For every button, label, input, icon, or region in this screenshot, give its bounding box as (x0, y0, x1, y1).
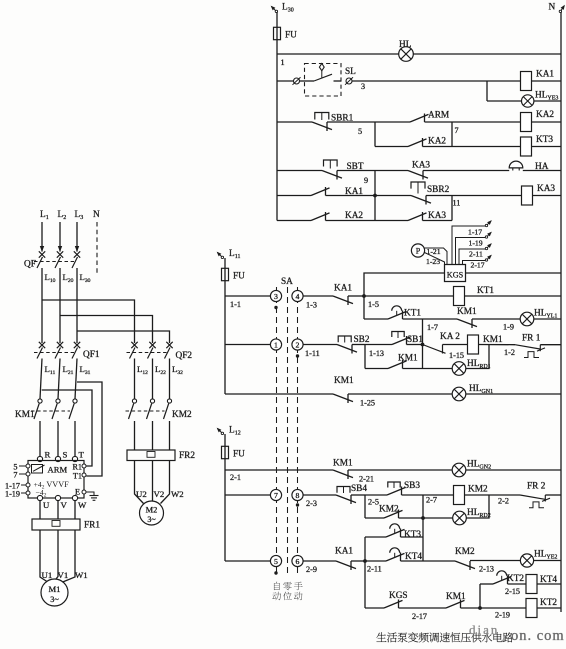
wire 2-7 to coil KM2 (423, 494, 454, 496)
pushbutton SB3 (388, 482, 400, 488)
contact KA2 (bottom) (311, 213, 330, 221)
svg-text:2-1: 2-1 (230, 473, 241, 482)
wire L12 to KM2 (134, 359, 136, 400)
svg-text:6: 6 (296, 557, 300, 566)
wire tap T1 from L31 (77, 382, 102, 476)
wire KM2 self-hold row (365, 517, 384, 519)
svg-text:1-19: 1-19 (5, 490, 20, 499)
wire to contact KA3 bottom (375, 220, 408, 222)
svg-text:KA3: KA3 (412, 161, 430, 171)
wire SBR1 to node 5 (327, 121, 375, 123)
svg-text:1-25: 1-25 (360, 399, 375, 408)
wire N rail (560, 12, 562, 612)
wire rung 5-6 left (225, 560, 271, 562)
wire rung1 to coil KT1 (364, 295, 454, 297)
wire junction column SBT rows (374, 171, 376, 221)
pushbutton SBT (NC) (324, 160, 338, 167)
svg-text:L12: L12 (229, 426, 241, 437)
svg-text:2: 2 (296, 340, 300, 349)
wire L30 bus (76, 268, 78, 343)
svg-text:2-19: 2-19 (495, 611, 510, 620)
fuse FU (middle) (224, 258, 226, 394)
svg-text:KA1: KA1 (334, 284, 352, 294)
svg-text:L22: L22 (155, 364, 166, 376)
wire L31 to KM1 (75, 359, 77, 400)
svg-text:1-15: 1-15 (449, 351, 464, 360)
wire self-hold row (365, 368, 388, 370)
wire rung SL right to coil KA1 (352, 80, 521, 82)
wire tap L20 to QF2 pole2 (60, 316, 153, 344)
contact KA1 (auto start) (333, 296, 353, 304)
KGS terminal wire 1-17 (452, 226, 486, 265)
SA mode label auto-zero-hand (274, 582, 280, 590)
wire KA3 to bell HA (423, 170, 509, 172)
svg-text:W2: W2 (171, 489, 184, 499)
bell HA (509, 161, 523, 168)
liquid level controller KGS (445, 265, 466, 282)
contactor coil KM1 (468, 335, 479, 354)
wire junction up to KGS (364, 273, 445, 296)
contact KA2 (self-hold) (408, 139, 427, 147)
svg-text:KM2: KM2 (379, 505, 399, 515)
wire P to KGS (1-23) (425, 253, 445, 265)
svg-text:KM1: KM1 (457, 307, 477, 317)
svg-text:U: U (43, 500, 50, 510)
svg-text:KM1: KM1 (398, 354, 418, 364)
wire 2-3 to SB4 (303, 494, 336, 496)
svg-text:L11: L11 (45, 364, 56, 376)
terminal S (55, 456, 60, 461)
wire L21 to KM1 (58, 359, 60, 400)
wire junction to lamp HL-RD2 (423, 517, 453, 519)
wire rung 3 (225, 393, 333, 395)
wire KGS row (365, 607, 384, 609)
contact KM2 (pump2 running) (455, 561, 475, 569)
time relay coil KT2 (526, 599, 537, 618)
wire HL-YL1 to right rail (534, 318, 561, 320)
contact KM1 (NC stop indicator) (333, 394, 353, 402)
wire KM1 to ARM box (39, 421, 41, 457)
svg-text:SBR2: SBR2 (427, 185, 450, 195)
wire FR1 to right rail (540, 344, 561, 346)
svg-text:7: 7 (455, 126, 459, 135)
wire U V W to FR1 (39, 500, 41, 519)
wire HL-YE3 to N (534, 100, 561, 102)
terminal stud right of SL (346, 78, 352, 84)
svg-text:T1: T1 (73, 472, 82, 481)
svg-text:W: W (78, 500, 87, 510)
svg-text:P: P (416, 247, 421, 256)
svg-text:T: T (79, 450, 85, 460)
wire branch to lamp HL-YE3 (486, 81, 488, 101)
svg-text:U2: U2 (136, 489, 147, 499)
svg-text:2-13: 2-13 (479, 565, 494, 574)
wire KA2 to coil KM1 (443, 344, 468, 346)
terminal W (72, 495, 77, 500)
svg-text:FR1: FR1 (84, 521, 100, 531)
net L11 terminal (218, 253, 223, 258)
wire rung SBR1 (277, 121, 312, 123)
contactor coil KM2 (454, 486, 465, 505)
inverter unit ARM / VVVF box (28, 461, 84, 499)
svg-text:7: 7 (274, 491, 278, 500)
wire KT3 coil to N (532, 146, 562, 148)
svg-text:KM2: KM2 (172, 410, 192, 420)
svg-text:L1: L1 (40, 210, 49, 221)
wire L11 to KM1 (40, 359, 42, 400)
wire SBR2 to coil KA3 (426, 195, 522, 197)
wire KM1 coil to FR1 contact (479, 344, 516, 346)
thermal overload relay FR1 (32, 519, 80, 530)
net L12 terminal (218, 429, 223, 434)
thermal overload relay FR2 (127, 450, 175, 461)
wire KT4 to junction column (401, 560, 424, 562)
svg-text:KM1: KM1 (483, 335, 503, 345)
svg-text:KGS: KGS (447, 271, 464, 280)
svg-text:KT1: KT1 (477, 286, 494, 296)
svg-text:KA3: KA3 (428, 211, 446, 221)
svg-text:L2: L2 (58, 210, 67, 221)
svg-text:11: 11 (453, 199, 461, 208)
pushbutton SB2 (stop) (338, 336, 351, 342)
thermal contact FR1 (515, 345, 540, 349)
wire 2-17 to KM1 contact (399, 607, 447, 609)
KGS terminal wire 2-17 (463, 261, 487, 265)
relay coil KA1 (521, 72, 532, 91)
wire KM2 coil to FR2 contact (465, 494, 521, 496)
wire L20 bus (59, 268, 61, 343)
wire junction column up to KT2 contact row (479, 584, 481, 608)
wire 1-3 to KA1 (303, 295, 333, 297)
wire KM2 to FR2 (134, 421, 136, 450)
svg-text:R: R (45, 450, 51, 460)
wire FR2 to right rail (545, 494, 561, 496)
svg-text:3: 3 (361, 82, 365, 91)
wire HL-GN2 to right rail (466, 469, 561, 471)
wire 2-21 to lamp HL-GN2 (348, 469, 452, 471)
lamp HL-YE2 (520, 554, 533, 567)
wire rung SL left (277, 80, 293, 82)
lamp HL-RD1 (452, 362, 466, 376)
wire SB3 to junction column (402, 494, 424, 496)
svg-text:5: 5 (274, 557, 278, 566)
svg-text:2-17: 2-17 (412, 612, 427, 621)
wire branch down (self hold) (364, 345, 366, 369)
wire KA2 coil to N (532, 121, 562, 123)
ARM internal switch (32, 465, 43, 474)
wire 1-13 to SB1 (365, 344, 392, 346)
wire KM1 selfhold to junction column (403, 368, 423, 370)
contact KM1 (interlock bottom) (446, 600, 465, 608)
thermal contact FR2 (520, 495, 545, 499)
wire KT3 row (365, 536, 386, 538)
wire KT1 coil to right rail (465, 295, 562, 297)
KGS terminal wire 2-11 (459, 249, 486, 265)
wire 1-11 to SB2 (303, 344, 337, 346)
svg-text:KM1: KM1 (334, 376, 354, 386)
pushbutton SBR1 (NC) (315, 113, 329, 120)
svg-text:KGS: KGS (389, 591, 408, 601)
pushbutton SB1 (start) (392, 332, 404, 338)
junction column right of ARM (451, 122, 453, 147)
svg-text:9: 9 (364, 176, 368, 185)
svg-text:on. com: on. com (511, 628, 565, 644)
svg-text:3: 3 (274, 292, 278, 301)
terminal stud left of SL (294, 78, 300, 84)
svg-text:2-9: 2-9 (306, 565, 317, 574)
delayed contact KT4 on rung (365, 560, 386, 562)
caption title (376, 632, 386, 641)
svg-text:L3: L3 (75, 210, 84, 221)
contact KA2 (pressure interlock) (423, 345, 446, 354)
net L30 terminal (272, 7, 277, 12)
limit switch SL with dashed enclosure (305, 64, 342, 97)
wire 1-25 to lamp HL-GN1 (348, 393, 452, 395)
wire tap L30 to QF2 pole3 (77, 331, 170, 343)
svg-text:1-9: 1-9 (503, 323, 514, 332)
contact ARM (410, 114, 429, 122)
svg-text:1-1: 1-1 (230, 300, 241, 309)
svg-text:1-11: 1-11 (305, 349, 320, 358)
SA contact 2 (292, 339, 303, 350)
wire rung 1 left (225, 295, 271, 297)
svg-text:R1: R1 (72, 463, 82, 472)
svg-text:M2: M2 (146, 506, 158, 515)
svg-text:2-3: 2-3 (306, 499, 317, 508)
svg-text:FU: FU (233, 450, 245, 460)
wire rung KA1 contact (277, 195, 311, 197)
svg-text:N: N (549, 3, 556, 13)
circuit breaker QF1 (39, 342, 45, 348)
svg-text:KA 2: KA 2 (440, 332, 460, 342)
svg-text:1-17: 1-17 (468, 228, 482, 237)
wire KA1 contact to junction (326, 195, 376, 197)
wire KT2 contact to coil KT4 (508, 583, 527, 585)
svg-text:dian: dian (469, 622, 499, 637)
svg-text:1: 1 (274, 340, 278, 349)
wire KGS to right rail (466, 272, 562, 274)
contact KA1 (level relay) (336, 561, 356, 569)
svg-text:L12: L12 (137, 364, 148, 376)
wire rung 2 left (225, 344, 271, 346)
relay coil KA2 (521, 113, 532, 132)
svg-text:1-13: 1-13 (369, 349, 384, 358)
wire KA1 to junction 1-5 (348, 295, 364, 297)
lamp HL-YL1 (520, 312, 534, 326)
svg-text:KA1: KA1 (335, 547, 353, 557)
terminal R (37, 456, 42, 461)
svg-text:SB4: SB4 (351, 484, 367, 494)
svg-text:FU: FU (233, 272, 245, 282)
svg-text:2-2: 2-2 (498, 497, 509, 506)
svg-text:SL: SL (345, 67, 356, 77)
svg-text:L32: L32 (172, 364, 183, 376)
wire HL-RD1 up to rung2 (466, 345, 489, 369)
svg-text:3~: 3~ (147, 515, 156, 524)
pushbutton SB4 (337, 487, 350, 493)
SA contact 8 (292, 489, 303, 500)
wire branch KT1 contact row (363, 296, 365, 319)
fuse FU (lower) (222, 446, 229, 458)
svg-text:KM1: KM1 (333, 459, 353, 469)
lamp HL-YE3 (522, 95, 534, 107)
svg-text:KT3: KT3 (536, 135, 553, 145)
delayed contact KT1 (392, 306, 402, 311)
svg-text:HLYE2: HLYE2 (534, 550, 557, 561)
terminal V (55, 495, 60, 500)
wire tap R1 from L11 (42, 390, 92, 466)
contact KGS (level switch) (384, 600, 403, 608)
svg-text:U1: U1 (42, 570, 53, 580)
delayed contact KT2 (497, 571, 507, 576)
svg-text:2-11: 2-11 (469, 250, 483, 259)
time relay coil KT4 (526, 575, 537, 594)
wire KT2 contact row (480, 583, 493, 585)
wire SB4 to branch (351, 494, 365, 496)
wire 2-9 to KA1 (303, 560, 336, 562)
svg-text:2-21: 2-21 (359, 475, 374, 484)
wire junction down to KGS row (364, 561, 366, 608)
SA position dot below 2 (296, 354, 299, 357)
svg-text:L30: L30 (80, 272, 91, 284)
SA contact 3 (270, 290, 281, 301)
svg-text:HLYL1: HLYL1 (534, 309, 557, 320)
svg-text:KA2: KA2 (536, 110, 554, 120)
wire HL-GN1 to right rail (466, 393, 561, 395)
wire SBT to node 9 (337, 170, 375, 172)
svg-text:ARM: ARM (48, 465, 68, 475)
svg-text:KM1: KM1 (446, 592, 466, 602)
svg-text:8: 8 (296, 491, 300, 500)
svg-text:L31: L31 (80, 364, 91, 376)
svg-text:2-17: 2-17 (471, 261, 485, 270)
svg-text:QF2: QF2 (176, 351, 193, 361)
svg-text:HL: HL (399, 40, 412, 50)
wire KA1 to junction 2-11 (351, 560, 365, 562)
contact KM1 (self-hold) (388, 361, 407, 369)
svg-text:L11: L11 (229, 249, 240, 260)
wire branch KA2 contact row (375, 146, 408, 148)
contact KM1 (pump1 running) (333, 470, 353, 478)
svg-text:KA1: KA1 (536, 70, 554, 80)
SA contact 6 (292, 555, 303, 566)
svg-text:2-5: 2-5 (368, 498, 379, 507)
wire L12 rail (224, 434, 226, 561)
svg-text:FR 2: FR 2 (527, 482, 546, 492)
svg-text:3~: 3~ (50, 595, 59, 604)
svg-text:M1: M1 (49, 584, 61, 594)
svg-text:N: N (93, 210, 100, 220)
contact KA3 (bottom) (408, 213, 427, 221)
svg-text:L21: L21 (63, 364, 74, 376)
contact KA3 (alarm row) (408, 171, 428, 179)
wire 2-13 to lamp HL-YE2 (470, 560, 520, 562)
fuse FU (upper) (274, 27, 281, 39)
svg-text:KT2: KT2 (507, 574, 524, 584)
wire FR2 to motor M2 (135, 461, 144, 504)
svg-text:2-7: 2-7 (426, 496, 437, 505)
svg-text:W1: W1 (75, 570, 88, 580)
SA position dot below 3 (274, 306, 277, 309)
svg-text:S: S (63, 450, 68, 460)
svg-text:KM2: KM2 (468, 485, 488, 495)
svg-text:QF1: QF1 (83, 350, 100, 360)
svg-text:1-3: 1-3 (306, 301, 317, 310)
time relay coil KT1 (454, 287, 465, 306)
contact KM2 (self-hold) (384, 510, 403, 518)
svg-text:KM2: KM2 (455, 547, 475, 557)
wire HA to N (523, 170, 561, 172)
wire rung 7-8 left (225, 494, 271, 496)
lamp HL (399, 47, 414, 62)
wire SB1 to junction (407, 344, 423, 346)
SA contact 4 (292, 290, 303, 301)
svg-text:SA: SA (281, 277, 293, 287)
SA contact 7 (270, 489, 281, 500)
pushbutton SBR2 (411, 182, 425, 189)
svg-text:V1: V1 (58, 570, 69, 580)
svg-text:V2: V2 (154, 489, 165, 499)
svg-text:1: 1 (281, 58, 285, 67)
wire P to KGS (1-21) (425, 248, 447, 265)
wire FR1 to motor M1 (40, 530, 49, 583)
svg-text:HLGN2: HLGN2 (467, 460, 491, 471)
wire KT1 contact to KM1 contact (403, 318, 458, 320)
wire rung 2-1 (225, 469, 333, 471)
svg-text:1-19: 1-19 (469, 239, 483, 248)
wire KA3 coil to N (533, 195, 562, 197)
wire KM1 to junction 2-19 (461, 607, 481, 609)
svg-text:KT3: KT3 (404, 530, 421, 540)
KGS terminal wire 1-19 (456, 238, 487, 265)
terminal U (37, 495, 42, 500)
delayed contact KT3 (390, 524, 400, 529)
SA position dot below 8 (296, 503, 299, 506)
lamp HL-GN2 (452, 463, 466, 477)
junction dot node 9 column (373, 194, 377, 198)
wire KT3 to junction column (401, 536, 424, 538)
svg-text:1-23: 1-23 (426, 257, 440, 266)
wire KA2 contact to coil KT3 (423, 146, 521, 148)
motor M2 (140, 501, 164, 525)
svg-text:4: 4 (296, 292, 300, 301)
svg-text:L30: L30 (282, 3, 294, 14)
wire L22 to KM2 (152, 359, 154, 400)
lamp HL-RD2 (453, 511, 467, 525)
svg-text:1-7: 1-7 (427, 323, 438, 332)
svg-text:1-2: 1-2 (504, 348, 515, 357)
contact KA1 (alarm hold) (311, 188, 330, 196)
svg-text:V: V (61, 500, 68, 510)
wire junction to lamp HL-RD1 (423, 368, 453, 370)
wire rung KA2 contact (277, 220, 311, 222)
svg-text:SB3: SB3 (404, 481, 420, 491)
wire rung to KM2 contact (423, 560, 455, 562)
wire branch down (KM2 self hold) (364, 495, 366, 518)
contact KM1 (run indicator) (457, 319, 477, 327)
junction column SBR2-KA3 (451, 196, 453, 221)
wire KT4 coil to right rail (537, 583, 561, 585)
wire L30 rail (276, 12, 278, 221)
SA position dot below 5 (274, 571, 277, 574)
terminal T (72, 456, 77, 461)
junction column 1-7 (422, 319, 424, 345)
wire tap L10 to QF2 pole1 (42, 300, 135, 343)
svg-text:FR2: FR2 (179, 451, 195, 461)
svg-text:L10: L10 (45, 272, 56, 284)
svg-text:KT1: KT1 (404, 309, 421, 319)
svg-text:5: 5 (358, 127, 362, 136)
